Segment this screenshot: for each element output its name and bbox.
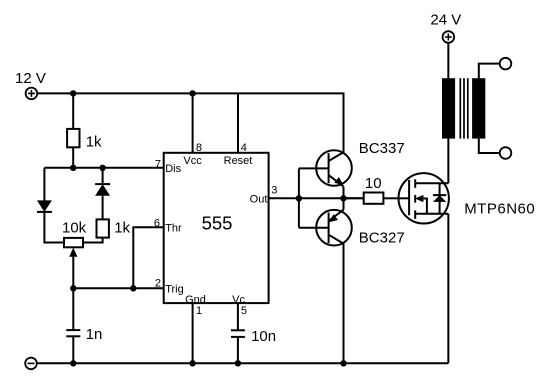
wire: secondary bottom lead bbox=[479, 139, 500, 153]
svg-text:10k: 10k bbox=[62, 219, 87, 236]
wire: C2 to rail bbox=[237, 337, 239, 363]
svg-text:10: 10 bbox=[365, 175, 382, 192]
svg-text:1n: 1n bbox=[86, 326, 103, 343]
wire: node to R3 bbox=[344, 197, 364, 199]
svg-text:1: 1 bbox=[196, 305, 202, 317]
resistor R2 1k bbox=[97, 219, 109, 237]
wire: secondary top lead bbox=[479, 64, 500, 79]
svg-text:BC327: BC327 bbox=[359, 229, 405, 246]
svg-text:4: 4 bbox=[241, 142, 247, 154]
wire: C1 to ground rail bbox=[72, 336, 74, 363]
svg-text:10n: 10n bbox=[251, 328, 276, 345]
node: Out / base rail bbox=[296, 195, 302, 201]
wire: Thr link bbox=[133, 227, 163, 288]
wire: R3 to MOSFET gate bbox=[383, 197, 398, 199]
wire: base rail vertical bbox=[298, 168, 300, 227]
wire: Out net horizontal bbox=[269, 197, 364, 199]
svg-text:MTP6N60: MTP6N60 bbox=[464, 201, 535, 218]
transistor Q3 MTP6N60 (N-MOSFET) bbox=[399, 173, 449, 223]
resistor R3 10 bbox=[364, 193, 384, 204]
wire: rail to R1 top bbox=[72, 93, 74, 128]
wire: Trig horizontal net bbox=[73, 287, 163, 289]
output terminal bottom bbox=[500, 147, 512, 159]
wire: pin 5 Vc to C2 bbox=[237, 303, 239, 330]
svg-text:555: 555 bbox=[202, 212, 233, 233]
wire: 24V to transformer primary bbox=[447, 43, 449, 78]
transistor Q1 BC337 (NPN) bbox=[316, 150, 352, 186]
wire: +12V top rail to BC337 collector bbox=[37, 93, 343, 152]
svg-text:BC337: BC337 bbox=[359, 140, 405, 157]
wire: MOSFET drain to transformer bbox=[447, 139, 449, 184]
svg-text:5: 5 bbox=[241, 305, 247, 317]
diode D1 (pointing down) bbox=[37, 200, 52, 212]
24V supply terminal bbox=[443, 31, 455, 43]
node: Dis / R1 junction bbox=[70, 165, 76, 171]
wire: pin 8 Vcc bbox=[192, 93, 194, 152]
wire: left branch down to D1 bbox=[43, 168, 45, 201]
svg-text:6: 6 bbox=[154, 218, 160, 230]
svg-text:Out: Out bbox=[250, 194, 268, 206]
svg-text:Dis: Dis bbox=[165, 163, 181, 175]
ground terminal (0V) bbox=[25, 358, 37, 370]
svg-text:1k: 1k bbox=[86, 134, 102, 151]
wire: BC337 emitter to node bbox=[343, 187, 345, 199]
wire: BC327 base lead bbox=[299, 227, 329, 229]
svg-text:24 V: 24 V bbox=[430, 12, 461, 29]
capacitor C2 10n bbox=[231, 330, 245, 337]
svg-text:Thr: Thr bbox=[165, 222, 182, 234]
wire: ground bottom rail bbox=[37, 362, 449, 364]
transformer T1 primary winding bbox=[442, 78, 455, 138]
output terminal top bbox=[500, 58, 512, 70]
wire: BC337 base lead bbox=[299, 167, 329, 169]
node: Trig / wiper junction bbox=[70, 285, 76, 291]
wire: BC327 collector to rail bbox=[343, 244, 345, 364]
transformer T1 core bbox=[460, 78, 468, 138]
resistor R1 1k bbox=[67, 129, 79, 147]
svg-text:2: 2 bbox=[155, 278, 161, 290]
node: emitters / gate resistor bbox=[340, 195, 346, 201]
wire: pin 1 Gnd to rail bbox=[192, 303, 194, 363]
node: rail / pin1 bbox=[189, 360, 195, 366]
capacitor C1 1n bbox=[66, 330, 80, 336]
transistor Q2 BC327 (PNP) bbox=[316, 210, 352, 246]
svg-text:7: 7 bbox=[155, 158, 161, 170]
svg-text:Reset: Reset bbox=[224, 155, 253, 167]
svg-text:12 V: 12 V bbox=[15, 70, 46, 87]
svg-text:3: 3 bbox=[271, 185, 277, 197]
wire: Dis horizontal net bbox=[44, 167, 163, 169]
potentiometer wiper arrow bbox=[69, 248, 77, 289]
node: rail / C1 bbox=[70, 360, 76, 366]
node: rail / R1 junction bbox=[70, 90, 76, 96]
node: rail / BC327 collector bbox=[340, 360, 346, 366]
wire: wiper down to C1 bbox=[72, 288, 74, 330]
12V supply terminal bbox=[26, 88, 38, 100]
wire: D2 anode branch bbox=[102, 168, 104, 184]
transformer T1 secondary winding bbox=[472, 78, 485, 138]
potentiometer 10k body bbox=[64, 238, 83, 247]
node: Dis / D2 junction bbox=[99, 165, 105, 171]
svg-text:1k: 1k bbox=[114, 219, 130, 236]
svg-text:Trig: Trig bbox=[165, 284, 184, 296]
wire: node to BC327 emitter bbox=[343, 198, 345, 209]
svg-text:Vcc: Vcc bbox=[183, 155, 202, 167]
node: Trig / Thr junction bbox=[130, 285, 136, 291]
wire: D1 cathode to pot left bbox=[44, 212, 64, 243]
wire: R1 bottom to Dis net bbox=[72, 147, 74, 168]
wire: D2 to R2 bbox=[102, 196, 104, 220]
wire: R2 bottom to pot right bbox=[83, 238, 103, 243]
wire: pin 4 Reset bbox=[237, 93, 239, 152]
op IC U1 555 body bbox=[164, 153, 269, 303]
node: rail / C2 bbox=[235, 360, 241, 366]
svg-text:8: 8 bbox=[196, 142, 202, 154]
node: rail / pin8 junction bbox=[189, 90, 195, 96]
diode D2 (pointing up) bbox=[95, 184, 110, 196]
wire: MOSFET source to rail bbox=[447, 214, 449, 363]
